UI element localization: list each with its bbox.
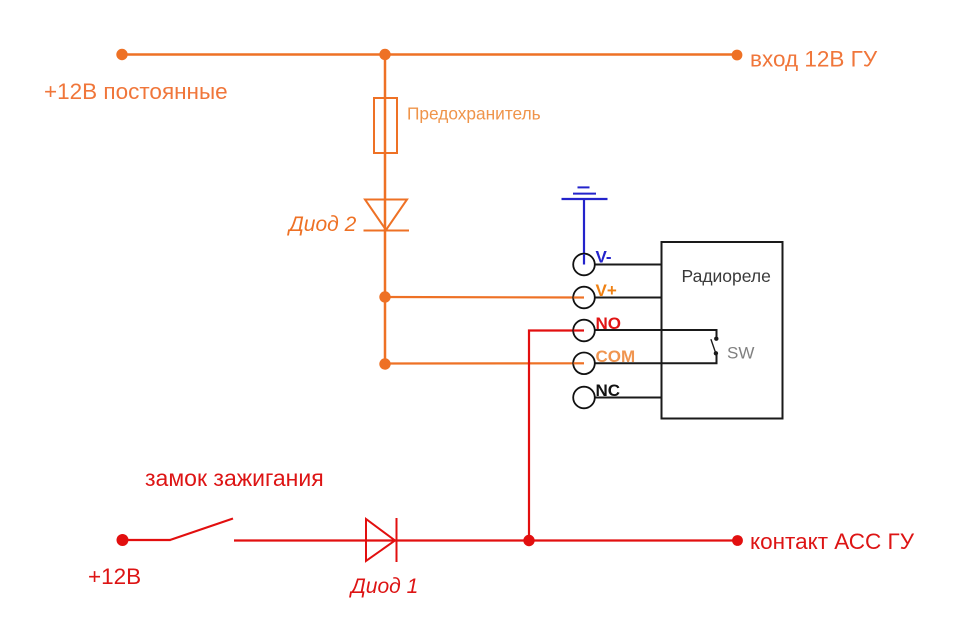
terminal NC xyxy=(573,387,595,409)
svg-text:Диод 2: Диод 2 xyxy=(287,213,357,236)
wire ignition switch to diode D1 xyxy=(234,539,397,541)
wire orange stub into COM terminal xyxy=(574,362,585,364)
node junction top rail / fuse branch xyxy=(379,49,390,60)
svg-text:COM: COM xyxy=(596,347,636,366)
node junction to COM xyxy=(379,358,390,369)
svg-text:+12В: +12В xyxy=(88,564,141,589)
wire ground to V- terminal xyxy=(583,199,585,265)
svg-text:Предохранитель: Предохранитель xyxy=(407,104,541,124)
svg-text:Диод 1: Диод 1 xyxy=(349,575,418,598)
node +12V battery terminal xyxy=(117,534,129,546)
wire rail to fuse xyxy=(384,55,387,99)
svg-text:Радиореле: Радиореле xyxy=(682,266,771,286)
wire diode D1 to ACC end xyxy=(397,539,738,541)
wire junction to V+ terminal xyxy=(385,296,584,299)
node right end of +12V rail xyxy=(732,50,743,61)
terminal NO xyxy=(573,320,595,342)
svg-text:контакт АСС ГУ: контакт АСС ГУ xyxy=(750,529,915,554)
node right end ACC xyxy=(732,535,743,546)
ground symbol xyxy=(562,187,608,199)
svg-text:+12В постоянные: +12В постоянные xyxy=(44,79,228,104)
svg-text:V-: V- xyxy=(596,248,612,267)
wire orange stub into V+ terminal xyxy=(574,296,585,298)
relay box U1 Радиореле xyxy=(662,242,783,419)
svg-text:NO: NO xyxy=(596,314,622,333)
wire top +12V rail xyxy=(122,53,737,56)
wire COM to switch SW xyxy=(594,354,717,364)
wire blue stem into V- terminal xyxy=(583,254,585,265)
wire NO to switch SW xyxy=(594,330,717,338)
wire +12V dot to ignition switch xyxy=(123,539,171,541)
terminal COM xyxy=(573,353,595,375)
wire NC to relay xyxy=(594,397,662,399)
diode D2 Диод 2 xyxy=(364,200,410,231)
svg-text:V+: V+ xyxy=(596,281,617,300)
terminal V- xyxy=(573,254,595,276)
node left end of +12V rail xyxy=(116,49,127,60)
switch ignition замок зажигания xyxy=(170,519,233,541)
svg-text:SW: SW xyxy=(727,343,754,362)
fuse F1 Предохранитель xyxy=(374,98,397,153)
node junction to V+ xyxy=(379,291,390,302)
switch SW contacts and arm xyxy=(711,337,719,356)
svg-text:NC: NC xyxy=(596,381,621,400)
diode D1 Диод 1 xyxy=(366,518,397,562)
wire V- to relay xyxy=(594,264,662,266)
node junction bottom ACC rail xyxy=(523,535,534,546)
wire fuse to diode D2 xyxy=(384,153,387,231)
svg-text:вход 12В ГУ: вход 12В ГУ xyxy=(750,47,878,72)
wire V+ to relay xyxy=(594,297,662,299)
wire diode D2 down through junctions xyxy=(384,230,387,364)
wire junction to COM terminal xyxy=(385,362,584,364)
wire red stub into NO terminal xyxy=(574,329,585,331)
wire red feed to NO terminal xyxy=(529,331,584,541)
svg-text:замок зажигания: замок зажигания xyxy=(145,465,324,491)
terminal V+ xyxy=(573,287,595,309)
